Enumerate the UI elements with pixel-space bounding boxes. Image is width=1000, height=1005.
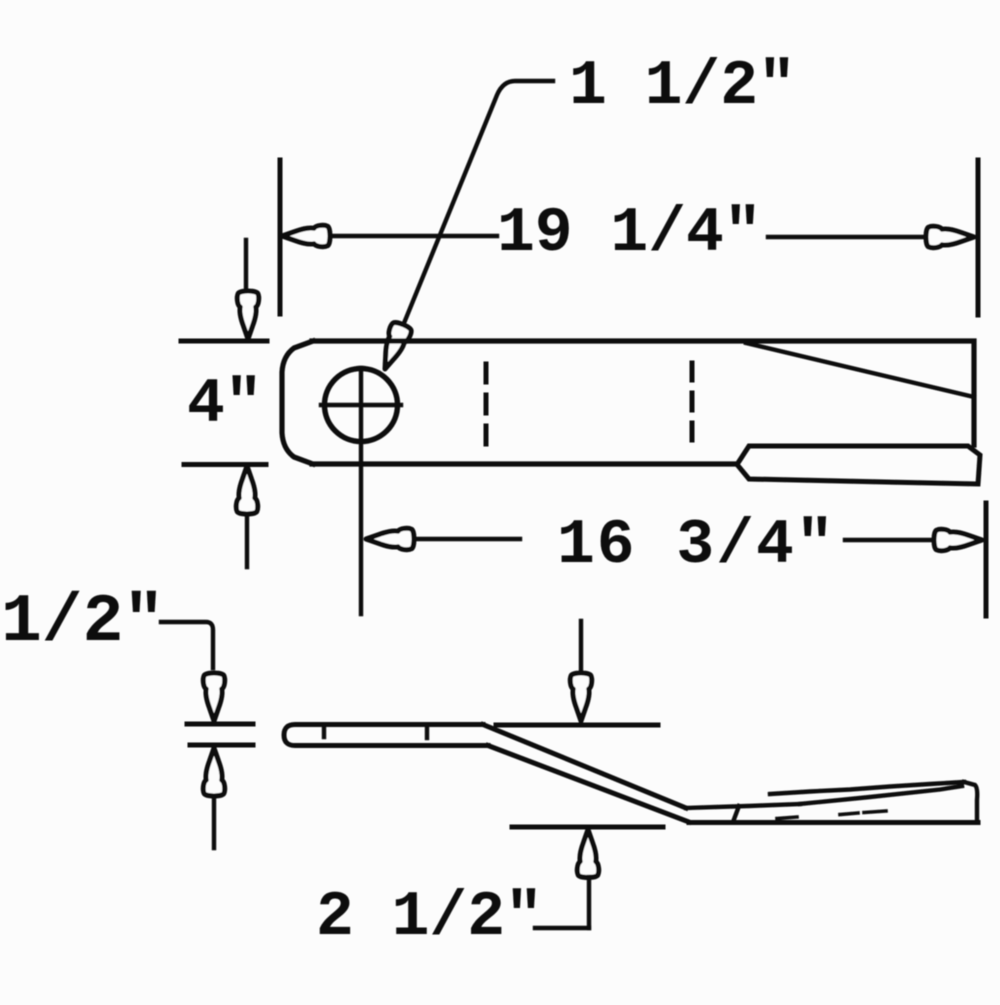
dimension line right segment of 16 3/4 [845, 538, 934, 542]
extension line of 2 1/2 [512, 825, 663, 830]
side view dashed hidden line [777, 811, 886, 819]
svg-text:4": 4" [187, 369, 263, 440]
reference line for top surface (middle down arrow) [496, 723, 658, 728]
top arrow of 4" pointing down [237, 291, 258, 339]
bottom arrow of 4" pointing up [236, 466, 257, 514]
top view blade outline [282, 341, 974, 464]
side view blade tip right end [964, 782, 977, 821]
up arrow of 1/2 [203, 748, 224, 796]
dashed line 2 (top view) [690, 363, 695, 445]
down arrow of 1/2 [203, 673, 224, 721]
side view bevel lower line [800, 786, 962, 804]
side view right flat bottom line [689, 820, 978, 825]
hole crosshair horizontal [321, 403, 401, 407]
bevel diagonal line (top view) [746, 343, 974, 397]
arrow left of 19 1/4 [282, 225, 330, 246]
tick mark 2 on side view [425, 727, 429, 738]
tick mark 1 on side view [322, 727, 326, 737]
svg-text:1/2": 1/2" [1, 584, 164, 661]
dimension line left segment of 16 3/4 [414, 537, 520, 541]
extension line bottom of 1/2 [190, 743, 253, 748]
extension line bottom of 4" [184, 462, 266, 467]
svg-text:1 1/2": 1 1/2" [569, 51, 796, 122]
side view left flat section [284, 725, 488, 746]
extension line top of 4" [181, 339, 267, 344]
dimension line left segment [330, 234, 497, 238]
leader horizontal of 2 1/2 [535, 926, 589, 930]
side view bend top diagonal [483, 725, 686, 809]
leader of 1/2 label [161, 622, 213, 668]
extension line right of 16 3/4 [984, 503, 989, 616]
extension line right (x=978) [976, 160, 981, 315]
cutting edge tail (top view) [737, 446, 980, 484]
bottom arrow stem of 4" [245, 516, 249, 567]
top arrow stem of 4" [244, 240, 248, 291]
dimension line right segment [768, 235, 926, 239]
dashed line 1 (top view) [484, 364, 489, 448]
svg-text:19 1/4": 19 1/4" [497, 198, 762, 269]
up arrow of 2 1/2 [577, 830, 598, 878]
side view bevel upper sketchy line [770, 782, 964, 794]
extension line top of 1/2 [187, 722, 253, 727]
extension line left (x=280) [278, 160, 283, 314]
side view bevel start tick [733, 806, 739, 822]
leader line from 1 1/2 label to hole [391, 81, 553, 355]
arrow right of 16 3/4 [934, 529, 982, 550]
middle down arrow stem [579, 621, 583, 671]
middle down arrow [570, 673, 591, 721]
hole center line vertical [359, 368, 363, 614]
stem of 2 1/2 [587, 877, 591, 928]
hole circle [325, 369, 398, 442]
svg-text:16 3/4": 16 3/4" [557, 510, 836, 581]
arrow left of 16 3/4 [366, 528, 414, 549]
leader arrowhead at hole [375, 321, 413, 374]
svg-text:2 1/2": 2 1/2" [316, 882, 543, 953]
side view right flat top line [686, 804, 800, 808]
arrow right of 19 1/4 [926, 226, 974, 247]
side view bend bottom diagonal [488, 746, 689, 823]
lower stem of 1/2 [212, 796, 216, 848]
